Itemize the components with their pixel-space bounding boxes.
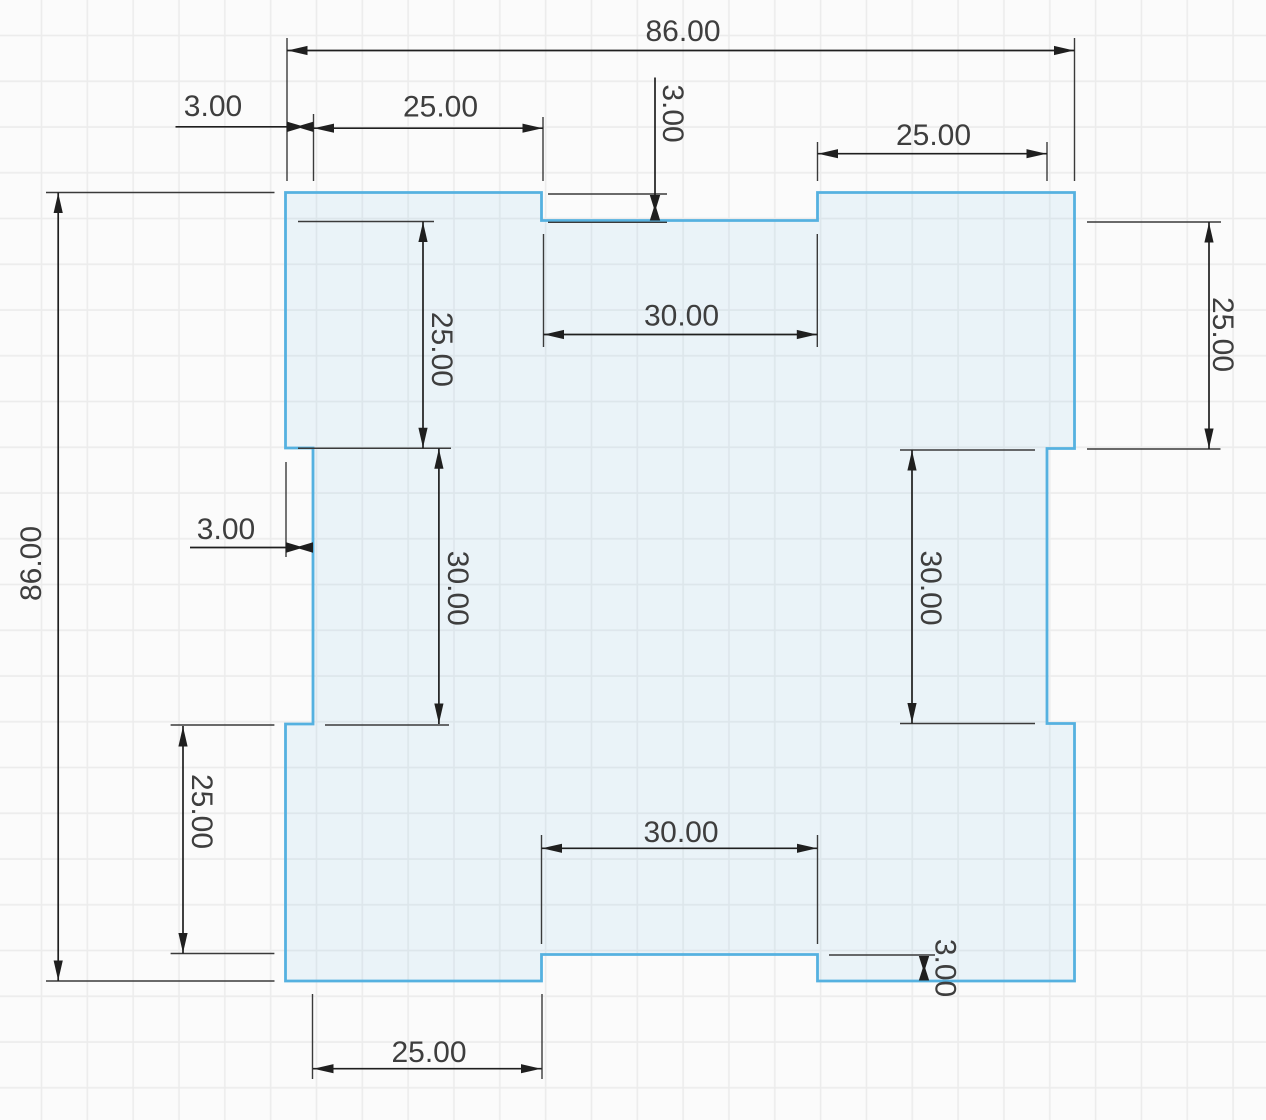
svg-text:3.00: 3.00 — [929, 939, 962, 997]
svg-text:25.00: 25.00 — [1206, 297, 1239, 372]
svg-text:25.00: 25.00 — [403, 91, 478, 124]
svg-text:25.00: 25.00 — [425, 312, 458, 387]
svg-text:3.00: 3.00 — [184, 90, 242, 123]
svg-text:30.00: 30.00 — [914, 550, 947, 625]
svg-text:25.00: 25.00 — [391, 1036, 466, 1069]
svg-text:3.00: 3.00 — [656, 84, 689, 142]
svg-text:86.00: 86.00 — [15, 526, 48, 601]
svg-text:30.00: 30.00 — [643, 816, 718, 849]
svg-text:25.00: 25.00 — [185, 774, 218, 849]
svg-text:30.00: 30.00 — [644, 300, 719, 333]
svg-text:30.00: 30.00 — [441, 551, 474, 626]
svg-text:3.00: 3.00 — [197, 513, 255, 546]
svg-text:86.00: 86.00 — [645, 15, 720, 48]
svg-text:25.00: 25.00 — [896, 119, 971, 152]
